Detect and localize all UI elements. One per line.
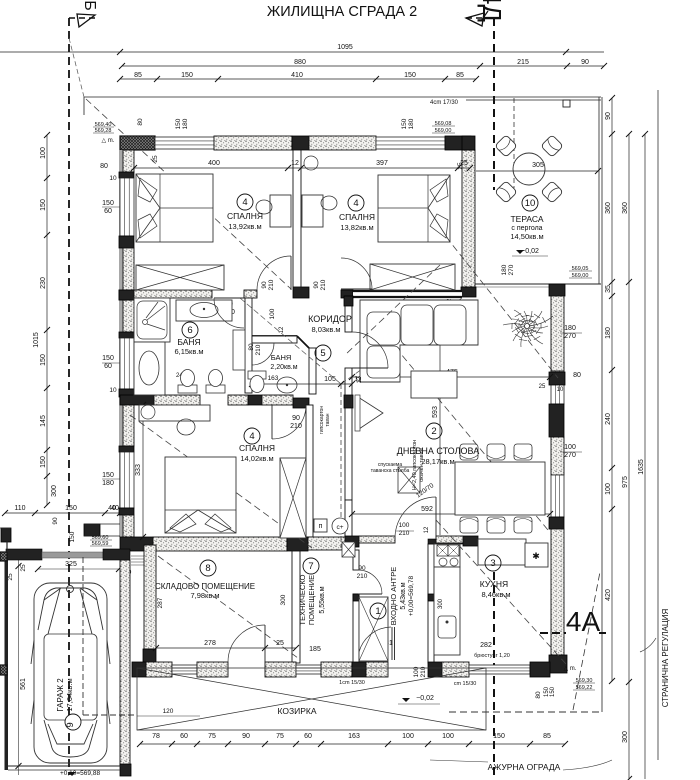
- svg-text:СТРАНИЧНА РЕГУЛАЦИЯ: СТРАНИЧНА РЕГУЛАЦИЯ: [661, 608, 670, 707]
- svg-text:12: 12: [291, 160, 299, 167]
- svg-text:КУХНЯ: КУХНЯ: [480, 579, 508, 589]
- svg-text:360: 360: [605, 202, 612, 214]
- svg-text:СПАЛНЯ: СПАЛНЯ: [239, 443, 275, 453]
- svg-text:80: 80: [535, 691, 542, 699]
- svg-text:150: 150: [69, 531, 76, 542]
- svg-text:180: 180: [182, 118, 189, 129]
- svg-text:85: 85: [456, 72, 464, 79]
- svg-text:4: 4: [353, 198, 358, 209]
- svg-text:150: 150: [40, 354, 47, 366]
- svg-text:210: 210: [268, 279, 275, 290]
- svg-text:300: 300: [51, 485, 58, 497]
- svg-text:ГАРАЖ 2: ГАРАЖ 2: [56, 678, 65, 712]
- svg-text:14,50кв.м: 14,50кв.м: [510, 232, 543, 241]
- svg-text:150: 150: [102, 200, 114, 207]
- svg-text:85: 85: [134, 72, 142, 79]
- svg-text:25: 25: [457, 162, 464, 170]
- svg-text:150: 150: [493, 733, 505, 740]
- svg-text:240: 240: [605, 413, 612, 425]
- svg-text:6: 6: [187, 325, 192, 336]
- svg-text:80: 80: [100, 163, 108, 170]
- svg-text:cm 15/30: cm 15/30: [454, 681, 477, 687]
- svg-text:270: 270: [508, 264, 515, 275]
- svg-text:4: 4: [242, 197, 247, 208]
- svg-text:150: 150: [404, 72, 416, 79]
- svg-text:8,03кв.м: 8,03кв.м: [311, 325, 340, 334]
- svg-text:12: 12: [424, 526, 430, 533]
- svg-text:80: 80: [573, 372, 581, 379]
- svg-text:брюстунг 1,20: брюстунг 1,20: [474, 653, 510, 659]
- svg-text:100: 100: [40, 147, 47, 159]
- svg-text:БАНЯ: БАНЯ: [177, 337, 200, 347]
- svg-text:4Д: 4Д: [477, 0, 507, 22]
- svg-text:−0,02: −0,02: [416, 695, 434, 702]
- svg-text:−0,02: −0,02: [521, 248, 539, 255]
- svg-text:215: 215: [517, 59, 529, 66]
- svg-text:185: 185: [309, 646, 321, 653]
- svg-text:975: 975: [622, 476, 629, 488]
- svg-text:п: п: [319, 523, 323, 530]
- svg-text:10: 10: [557, 387, 564, 393]
- svg-text:180: 180: [102, 480, 114, 487]
- svg-text:25: 25: [539, 384, 546, 390]
- svg-text:100: 100: [399, 522, 410, 529]
- svg-text:180: 180: [501, 264, 508, 275]
- svg-text:ТЕХНИЧЕСКО: ТЕХНИЧЕСКО: [298, 574, 307, 625]
- svg-text:278: 278: [204, 640, 216, 647]
- svg-text:✱: ✱: [532, 551, 540, 561]
- svg-text:75: 75: [276, 733, 284, 740]
- svg-text:150: 150: [175, 118, 182, 129]
- svg-text:180: 180: [408, 118, 415, 129]
- svg-text:КОРИДОР: КОРИДОР: [308, 314, 352, 324]
- svg-text:35: 35: [605, 285, 612, 293]
- svg-text:3: 3: [490, 558, 495, 569]
- svg-text:880: 880: [294, 59, 306, 66]
- svg-text:14,02кв.м: 14,02кв.м: [240, 454, 273, 463]
- svg-text:5,55кв.м: 5,55кв.м: [319, 586, 326, 613]
- svg-text:СПАЛНЯ: СПАЛНЯ: [339, 212, 375, 222]
- svg-text:100: 100: [402, 733, 414, 740]
- svg-text:4cm 17/30: 4cm 17/30: [430, 100, 459, 106]
- svg-text:12: 12: [279, 326, 285, 333]
- svg-text:150: 150: [401, 118, 408, 129]
- svg-text:таван: таван: [325, 413, 331, 426]
- svg-text:90: 90: [242, 733, 250, 740]
- svg-text:13,92кв.м: 13,92кв.м: [228, 222, 261, 231]
- svg-text:28,17кв.м: 28,17кв.м: [421, 457, 454, 466]
- svg-text:80: 80: [137, 118, 144, 126]
- svg-text:СПАЛНЯ: СПАЛНЯ: [227, 211, 263, 221]
- svg-text:ПОМЕЩЕНИЕ: ПОМЕЩЕНИЕ: [307, 575, 316, 625]
- svg-text:1015: 1015: [33, 332, 40, 348]
- svg-text:9: 9: [65, 722, 76, 727]
- svg-text:5: 5: [320, 348, 325, 359]
- svg-text:210: 210: [357, 573, 368, 580]
- svg-text:ДНЕВНА СТОЛОВА: ДНЕВНА СТОЛОВА: [397, 446, 479, 456]
- svg-text:4: 4: [249, 431, 254, 442]
- svg-text:282: 282: [480, 642, 492, 649]
- svg-text:60: 60: [304, 733, 312, 740]
- svg-text:10: 10: [109, 387, 117, 394]
- svg-text:10: 10: [525, 198, 536, 209]
- svg-text:90: 90: [581, 59, 589, 66]
- svg-text:561: 561: [20, 678, 27, 690]
- svg-text:305: 305: [532, 162, 544, 169]
- svg-text:7,98кв.м: 7,98кв.м: [190, 591, 219, 600]
- svg-text:+0,10=569,88: +0,10=569,88: [60, 770, 101, 777]
- svg-text:90: 90: [313, 281, 320, 289]
- svg-text:360: 360: [622, 202, 629, 214]
- svg-text:78: 78: [152, 733, 160, 740]
- svg-text:8: 8: [205, 563, 210, 574]
- svg-text:180: 180: [564, 325, 576, 332]
- svg-text:287: 287: [157, 597, 164, 608]
- svg-text:145: 145: [40, 415, 47, 427]
- svg-text:163: 163: [348, 733, 360, 740]
- svg-text:таванска стълба: таванска стълба: [371, 468, 410, 474]
- svg-text:270: 270: [564, 333, 576, 340]
- svg-text:120: 120: [163, 708, 174, 715]
- svg-text:400: 400: [208, 160, 220, 167]
- svg-text:25: 25: [20, 564, 27, 572]
- svg-text:90: 90: [605, 112, 612, 120]
- svg-text:60: 60: [104, 363, 112, 370]
- svg-text:150: 150: [65, 505, 77, 512]
- svg-text:230: 230: [40, 277, 47, 289]
- svg-text:85: 85: [543, 733, 551, 740]
- svg-text:△ m.: △ m.: [102, 138, 115, 144]
- svg-text:6,15кв.м: 6,15кв.м: [174, 347, 203, 356]
- svg-text:210: 210: [320, 279, 327, 290]
- svg-text:300: 300: [438, 598, 444, 609]
- svg-text:100: 100: [442, 733, 454, 740]
- svg-text:13,82кв.м: 13,82кв.м: [340, 223, 373, 232]
- svg-text:150: 150: [181, 72, 193, 79]
- svg-text:ЖИЛИЩНА СГРАДА 2: ЖИЛИЩНА СГРАДА 2: [267, 4, 417, 20]
- svg-text:12: 12: [357, 376, 363, 383]
- svg-text:1cm 15/30: 1cm 15/30: [339, 680, 365, 686]
- svg-text:593: 593: [432, 406, 439, 418]
- svg-text:300: 300: [280, 594, 287, 605]
- svg-text:2,20кв.м: 2,20кв.м: [270, 364, 297, 371]
- svg-text:2: 2: [431, 426, 436, 437]
- svg-text:25: 25: [152, 155, 159, 163]
- svg-text:90: 90: [292, 415, 300, 422]
- svg-text:ВХОДНО АНТРЕ: ВХОДНО АНТРЕ: [389, 567, 398, 626]
- svg-text:75: 75: [208, 733, 216, 740]
- svg-text:40: 40: [108, 505, 116, 512]
- svg-text:АЖУРНА ОГРАДА: АЖУРНА ОГРАДА: [488, 762, 561, 772]
- svg-text:270: 270: [564, 452, 576, 459]
- svg-text:100: 100: [605, 483, 612, 495]
- svg-text:150: 150: [40, 456, 47, 468]
- svg-text:420: 420: [605, 589, 612, 601]
- svg-text:325: 325: [65, 561, 77, 568]
- svg-text:110: 110: [14, 505, 25, 512]
- svg-text:150: 150: [40, 199, 47, 211]
- svg-text:60: 60: [180, 733, 188, 740]
- svg-text:60: 60: [104, 208, 112, 215]
- svg-text:5,43кв.м: 5,43кв.м: [400, 582, 407, 609]
- svg-text:4Б: 4Б: [81, 0, 98, 11]
- svg-text:105: 105: [324, 376, 336, 383]
- svg-text:210: 210: [255, 344, 262, 355]
- svg-text:180: 180: [605, 327, 612, 339]
- svg-text:1095: 1095: [337, 44, 353, 51]
- svg-text:7: 7: [308, 561, 313, 572]
- svg-text:1635: 1635: [638, 459, 645, 475]
- svg-text:△ m.: △ m.: [564, 666, 577, 672]
- svg-text:ТЕРАСА: ТЕРАСА: [510, 214, 543, 224]
- svg-text:с пергола: с пергола: [511, 225, 542, 232]
- svg-text:БАНЯ: БАНЯ: [271, 353, 292, 362]
- svg-text:25: 25: [7, 573, 14, 581]
- svg-text:163: 163: [268, 375, 279, 382]
- svg-text:17,64кв.м: 17,64кв.м: [65, 678, 74, 711]
- svg-text:300: 300: [622, 731, 629, 743]
- svg-text:397: 397: [376, 160, 388, 167]
- svg-text:90: 90: [52, 517, 59, 525]
- svg-text:25: 25: [276, 640, 284, 647]
- svg-text:150: 150: [102, 355, 114, 362]
- svg-text:СКЛАДОВО ПОМЕЩЕНИЕ: СКЛАДОВО ПОМЕЩЕНИЕ: [155, 582, 255, 591]
- svg-text:4А: 4А: [566, 606, 601, 637]
- svg-text:8,46кв.м: 8,46кв.м: [481, 590, 510, 599]
- svg-text:592: 592: [421, 506, 433, 513]
- svg-text:1: 1: [375, 606, 380, 617]
- svg-text:150: 150: [102, 472, 114, 479]
- svg-text:90: 90: [261, 281, 268, 289]
- svg-text:с+: с+: [336, 524, 343, 531]
- svg-text:10: 10: [109, 175, 117, 182]
- svg-text:100: 100: [269, 308, 276, 319]
- svg-text:150: 150: [550, 686, 556, 697]
- svg-text:КОЗИРКА: КОЗИРКА: [277, 706, 316, 716]
- svg-text:+0,00=569,78: +0,00=569,78: [408, 576, 415, 617]
- svg-text:333: 333: [135, 464, 142, 476]
- svg-text:410: 410: [291, 72, 303, 79]
- svg-text:80: 80: [248, 343, 255, 351]
- svg-text:100: 100: [564, 444, 576, 451]
